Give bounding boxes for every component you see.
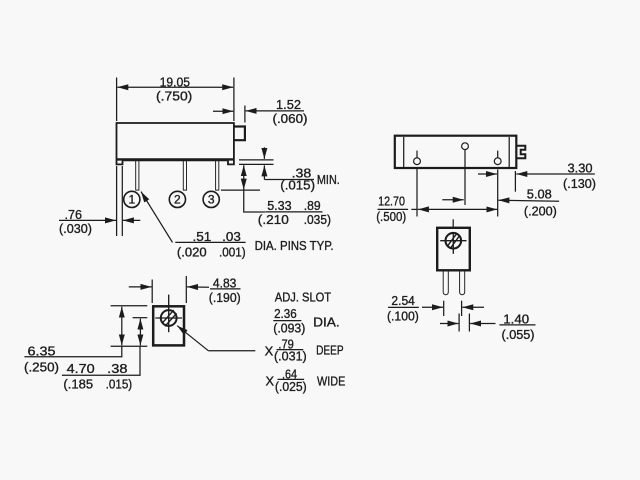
svg-text:DIA.: DIA. xyxy=(313,314,340,329)
pin 3 (side view) xyxy=(216,161,219,191)
svg-text:4.83: 4.83 xyxy=(213,276,237,291)
dim 4.70 leader elbow xyxy=(62,346,140,375)
svg-text:.015): .015) xyxy=(106,377,133,392)
end view pin right xyxy=(460,270,465,294)
svg-text:(.250): (.250) xyxy=(24,360,59,375)
dim 4.83 extension lines xyxy=(151,280,153,304)
svg-text:DEEP: DEEP xyxy=(316,343,344,358)
dim 19.05 extension lines xyxy=(116,78,118,122)
dim 2.54 fraction bar xyxy=(388,306,419,308)
pin hole 2 (top view) xyxy=(462,143,469,150)
svg-text:DIA. PINS TYP.: DIA. PINS TYP. xyxy=(255,238,334,253)
svg-text:3: 3 xyxy=(208,193,215,207)
svg-text:.51: .51 xyxy=(193,229,212,244)
svg-text:.001): .001) xyxy=(219,245,246,260)
dim 5.08 arrows xyxy=(442,199,463,201)
svg-text:X: X xyxy=(265,343,274,358)
dim .76 extension lines xyxy=(116,166,118,236)
dim 6.35 top extension line xyxy=(111,305,148,307)
dim 1.52 extension line xyxy=(244,106,246,123)
dim .38 min seating plane lines xyxy=(239,159,274,161)
svg-text:(.055): (.055) xyxy=(502,327,535,342)
dim 1.52 arrows xyxy=(213,110,233,112)
svg-text:1: 1 xyxy=(128,193,135,207)
leader arrow to adj slot xyxy=(177,326,208,351)
top view extension lines xyxy=(416,169,418,217)
dim 12.70 line xyxy=(411,208,417,210)
dim .38 min arrows xyxy=(263,147,265,159)
top view mounting tab with notch xyxy=(517,146,526,159)
svg-text:2.54: 2.54 xyxy=(391,293,415,308)
svg-text:X: X xyxy=(266,373,275,388)
adjustment screw (view D) xyxy=(161,310,177,326)
end view pin left xyxy=(443,270,448,294)
dim 6.35 bottom extension line xyxy=(111,345,148,347)
dim 1.40 extension lines xyxy=(458,314,460,332)
svg-text:.035): .035) xyxy=(304,212,331,227)
dim 6.35 double arrow xyxy=(121,307,123,326)
dim 2.54 extension lines xyxy=(443,301,445,316)
side view body (view A) xyxy=(117,123,234,164)
leader arrow to pin 1 xyxy=(141,192,173,243)
svg-text:6.35: 6.35 xyxy=(28,344,56,359)
svg-text:4.70: 4.70 xyxy=(67,361,95,376)
pin 1 (side view) xyxy=(136,161,139,191)
svg-text:.38: .38 xyxy=(107,361,127,376)
svg-text:(.750): (.750) xyxy=(156,88,192,103)
svg-text:(.100): (.100) xyxy=(387,309,419,324)
svg-text:3.30: 3.30 xyxy=(568,160,593,175)
dim 6.35 leader elbow xyxy=(24,346,121,356)
svg-text:2.36: 2.36 xyxy=(274,306,297,321)
dim 12.70 fraction bar xyxy=(378,208,409,210)
svg-text:(.030): (.030) xyxy=(59,221,92,236)
svg-text:(.185: (.185 xyxy=(63,377,93,392)
dim .79 fraction bar xyxy=(277,349,304,351)
svg-text:(.015): (.015) xyxy=(280,178,315,193)
dim 4.83 fraction bar xyxy=(210,288,241,290)
svg-text:1.52: 1.52 xyxy=(276,97,301,112)
svg-text:(.130): (.130) xyxy=(563,176,596,191)
svg-text:MIN.: MIN. xyxy=(317,172,340,187)
svg-text:5.08: 5.08 xyxy=(527,186,552,201)
dim 5.33 leader elbow xyxy=(244,190,265,212)
dim 5.33 arrows xyxy=(243,165,245,177)
svg-text:19.05: 19.05 xyxy=(160,74,190,89)
dim 1.40 arrows xyxy=(440,323,458,325)
dim 19.05 line with arrows xyxy=(117,86,175,88)
mounting tab (side view) xyxy=(234,127,245,141)
circled pin number 2 xyxy=(169,191,185,207)
circled pin number 3 xyxy=(203,191,219,207)
circled pin number 1 xyxy=(124,191,140,207)
svg-text:1.40: 1.40 xyxy=(503,311,529,326)
svg-text:(.060): (.060) xyxy=(273,111,308,126)
svg-text:(.500): (.500) xyxy=(376,209,406,224)
svg-text:(.190): (.190) xyxy=(209,290,241,305)
svg-text:12.70: 12.70 xyxy=(378,193,405,208)
svg-text:.03: .03 xyxy=(222,229,241,244)
top view body (view B) xyxy=(395,136,517,168)
dim .76 arrows xyxy=(59,219,116,221)
dia pins fraction bar xyxy=(175,241,245,243)
svg-text:.76: .76 xyxy=(65,207,83,222)
dim 5.33 fraction bar xyxy=(265,211,322,213)
pin hole 1 (top view) xyxy=(414,158,421,165)
end view centerline stub xyxy=(452,219,454,227)
svg-text:ADJ. SLOT: ADJ. SLOT xyxy=(275,289,331,304)
svg-text:(.020: (.020 xyxy=(177,245,207,260)
dim 4.70 top line xyxy=(133,317,148,319)
svg-text:(.093): (.093) xyxy=(273,321,305,336)
svg-text:(.200): (.200) xyxy=(524,203,557,218)
side view body bottom thick edge xyxy=(116,158,234,160)
svg-text:2: 2 xyxy=(174,193,181,207)
pin hole 3 (top view) xyxy=(494,158,501,165)
end view body (view C) xyxy=(437,228,470,270)
svg-text:(.210: (.210 xyxy=(258,212,289,227)
dim 4.70 double arrow xyxy=(139,319,141,331)
dim 3.30 arrows xyxy=(478,173,497,175)
svg-text:.89: .89 xyxy=(304,198,321,213)
dim 2.54 arrows xyxy=(422,306,443,308)
pin tip line xyxy=(221,189,260,191)
cross section body (view D) xyxy=(153,306,184,345)
svg-text:5.33: 5.33 xyxy=(267,198,291,213)
adjustment screw (end view) xyxy=(446,233,462,249)
top view inner edge lines xyxy=(403,137,405,167)
svg-text:(.025): (.025) xyxy=(275,379,307,394)
dim .64 fraction bar xyxy=(278,378,305,380)
pin 2 (side view) xyxy=(183,161,186,191)
dim 4.83 arrows xyxy=(129,286,152,288)
svg-text:(.031): (.031) xyxy=(274,349,307,364)
dim 1.40 fraction bar xyxy=(499,324,535,326)
svg-text:WIDE: WIDE xyxy=(317,373,345,388)
dim 2.36 fraction bar xyxy=(273,320,301,322)
